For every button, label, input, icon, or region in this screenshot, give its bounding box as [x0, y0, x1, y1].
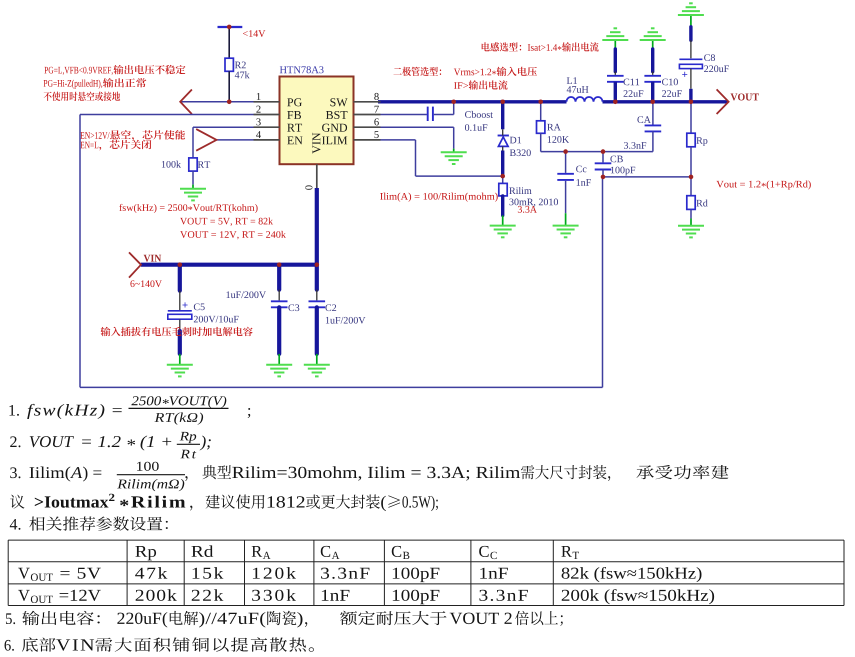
note PG line3	[44, 92, 120, 101]
wire Cboost to SW	[434, 114, 454, 116]
wire RT to ground	[192, 171, 194, 185]
label 0.1uF	[465, 124, 487, 131]
label Rp	[696, 137, 707, 146]
label 47uH	[567, 86, 589, 93]
label Cboost	[465, 111, 493, 118]
wire BST net	[381, 114, 427, 116]
label 120K	[548, 136, 569, 143]
label Rilim	[509, 187, 531, 194]
parameter table	[8, 540, 844, 605]
capacitor Cboost	[427, 107, 429, 121]
label 100pF	[611, 167, 635, 176]
note 3 continuation line	[10, 495, 24, 509]
pin number 8	[374, 93, 378, 100]
wire CB bottom	[602, 170, 604, 177]
capacitor C2 1uF/200V	[315, 265, 319, 290]
ground C5	[179, 354, 181, 365]
wire D1 top	[501, 100, 504, 129]
pin 3 RT stub	[254, 126, 280, 128]
label D1	[510, 137, 521, 144]
pin 6 GND stub	[354, 126, 381, 128]
pin number 1	[257, 93, 261, 100]
note 5 output capacitor	[6, 613, 15, 624]
wire C8 top	[689, 27, 692, 40]
label C8	[704, 54, 715, 61]
note PG line1	[44, 67, 112, 75]
note EN line2	[80, 142, 98, 149]
IC U1 HTN78A3	[280, 77, 354, 165]
note 1 fsw formula	[9, 405, 19, 416]
resistor Rilim	[499, 183, 507, 196]
label RT	[198, 161, 210, 168]
label 3.3nF	[624, 142, 646, 149]
ground C3	[278, 354, 280, 365]
capacitor C11	[607, 75, 624, 77]
pin number 5	[375, 131, 379, 138]
label 1uF/200V C3	[226, 291, 266, 298]
pin 8 SW stub	[354, 101, 381, 103]
label 3.3A	[518, 206, 537, 213]
pin 2 FB stub	[254, 114, 280, 116]
wire C8 bottom	[690, 69, 692, 89]
wire GND pin net	[381, 126, 454, 128]
label 200V/10uF	[194, 316, 239, 323]
IC label HTN78A3	[280, 66, 324, 73]
ground GND pin	[453, 149, 455, 153]
label 22uF C11	[624, 90, 644, 97]
label 47k	[235, 71, 250, 78]
note fsw formula	[119, 204, 257, 213]
note 2 VOUT formula	[10, 436, 20, 447]
wire C11 top	[614, 49, 617, 72]
wire Cc bottom	[565, 181, 567, 213]
pin name GND	[322, 124, 347, 132]
wire Rp bottom	[690, 147, 692, 177]
inductor L1	[567, 97, 603, 102]
ground RT	[192, 185, 194, 189]
pin number 7	[375, 106, 379, 113]
port arrow VIN	[129, 252, 141, 277]
note input cap advice	[101, 327, 253, 336]
note diode selection	[394, 67, 442, 76]
label C5	[194, 303, 205, 310]
capacitor CA	[645, 124, 662, 126]
pin number 4	[256, 131, 261, 138]
port arrow PG	[180, 90, 192, 115]
pin name SW	[330, 98, 347, 106]
label L1	[567, 77, 577, 84]
wire C11 bottom	[614, 82, 617, 102]
wire FB node line	[603, 176, 691, 178]
pin 0 VIN stub	[316, 164, 318, 188]
pin name VIN rotated	[312, 133, 320, 154]
note inductor selection	[482, 42, 522, 51]
wire Rilim top	[502, 176, 504, 183]
pin number 6	[374, 118, 378, 125]
wire Cc top	[565, 152, 567, 173]
wire C10 top	[651, 49, 654, 72]
wire RA top	[540, 102, 542, 121]
label VOUT	[731, 93, 759, 100]
note 6 thermal advice	[5, 640, 14, 651]
table row VOUT=12V	[18, 590, 30, 601]
power tap bar <14V	[218, 26, 243, 28]
label 6~140V	[130, 280, 161, 287]
ground Cc	[565, 213, 567, 225]
label R2	[235, 62, 246, 69]
note 4 parameters title	[10, 519, 21, 530]
wire VIN bus	[141, 263, 317, 267]
wire IC VIN drop	[315, 188, 319, 265]
note Ilim formula	[380, 193, 498, 202]
pin name RT	[287, 124, 302, 132]
label 1uF/200V C2	[326, 317, 366, 324]
wire RA bottom + node line	[540, 133, 542, 151]
wire PG net	[180, 101, 253, 103]
wire R2 bottom	[228, 71, 230, 102]
wire EN net	[217, 139, 254, 141]
pin 1 PG stub	[254, 101, 280, 103]
ground Rilim	[502, 215, 504, 225]
label <14V	[243, 30, 265, 37]
label + C5	[182, 302, 187, 307]
note PG line2	[44, 80, 103, 89]
wire C10 bottom	[651, 82, 654, 102]
wire CB top	[602, 152, 604, 163]
wire ILIM net	[381, 139, 416, 141]
table header row	[135, 546, 156, 560]
ground Rd	[690, 219, 692, 226]
pin name ILIM	[322, 136, 347, 144]
wire FB net	[80, 114, 254, 116]
capacitor Cc	[557, 173, 574, 175]
capacitor C10	[644, 75, 661, 77]
pin name EN	[287, 136, 302, 144]
pin name BST	[326, 111, 347, 119]
resistor Rp	[687, 133, 695, 147]
note Vout formula	[716, 180, 810, 189]
junction dots overlay	[227, 100, 232, 105]
pin name PG	[287, 98, 302, 106]
capacitor C8 220uF polarized	[679, 58, 702, 60]
diode D1 B320	[498, 135, 509, 137]
wire Rilim bottom	[501, 196, 504, 216]
label 100k	[162, 161, 181, 168]
wire Rp top	[690, 102, 692, 133]
pin 5 ILIM stub	[354, 139, 381, 141]
label C11	[624, 79, 640, 86]
resistor RA	[537, 121, 545, 134]
label Rd	[696, 199, 707, 206]
wire SW bus right	[603, 100, 729, 103]
label C10	[662, 79, 678, 86]
wire R2 top	[228, 27, 230, 58]
label CB	[610, 156, 622, 163]
capacitor C5 200V/10uF polarized	[178, 265, 182, 291]
wire Rd bottom	[690, 209, 692, 218]
label Cc	[576, 166, 586, 173]
capacitor CB	[595, 162, 612, 164]
label 30mR 2010	[509, 199, 558, 207]
pin number 2	[256, 106, 260, 113]
pin number 0 rotated	[305, 185, 312, 189]
label C3	[288, 304, 299, 311]
resistor Rd	[687, 196, 695, 210]
wire Rd top	[690, 177, 692, 196]
wire CA bottom	[652, 131, 654, 151]
ground C11	[614, 40, 616, 49]
pin 7 BST stub	[354, 114, 381, 116]
wire SW bus left	[378, 100, 567, 103]
ground C2	[316, 354, 318, 365]
label 220uF	[704, 65, 729, 72]
label 22uF C10	[662, 90, 682, 97]
wire CA top	[652, 102, 654, 125]
capacitor C3 1uF/200V	[277, 265, 281, 290]
label RA	[547, 124, 561, 131]
label CA	[637, 116, 650, 123]
label + C8	[682, 72, 687, 77]
wire D1 bottom	[501, 151, 504, 177]
ground C8	[690, 15, 692, 27]
port arrow EN	[196, 129, 216, 151]
table row VOUT=5V	[18, 568, 30, 579]
label VIN	[144, 255, 162, 262]
wire RT net	[193, 126, 254, 128]
pin 4 EN stub	[254, 139, 280, 141]
pin number 3	[256, 118, 260, 125]
pin name FB	[287, 111, 301, 119]
label B320	[510, 149, 531, 156]
resistor RT	[189, 158, 197, 171]
label C2	[325, 304, 336, 311]
note 3 Ilim formula	[10, 467, 20, 478]
note EN line1	[80, 132, 109, 139]
label 1nF	[577, 179, 591, 186]
resistor R2	[225, 58, 233, 71]
port arrow VOUT	[717, 89, 729, 114]
ground C10	[652, 40, 654, 49]
